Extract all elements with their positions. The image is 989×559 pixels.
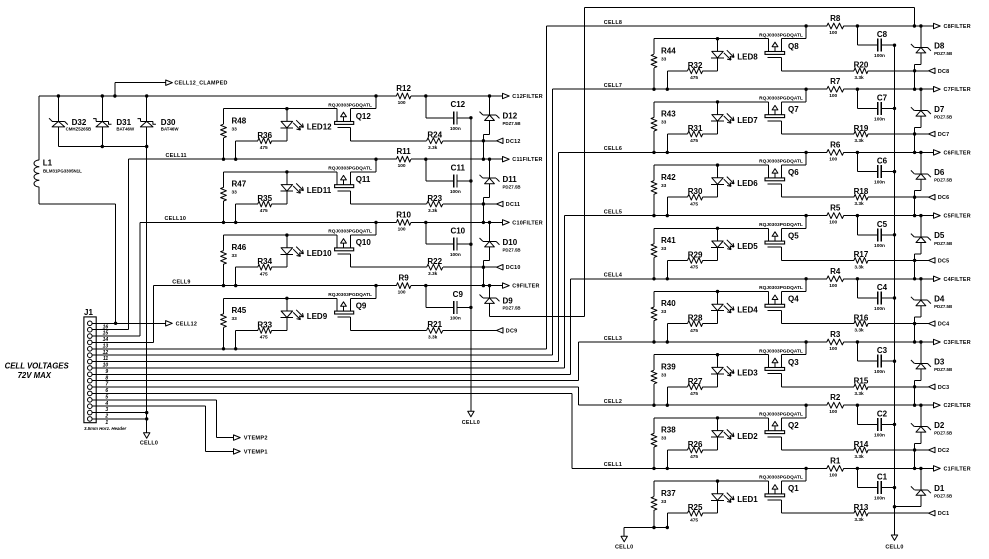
svg-text:100n: 100n [874, 116, 885, 122]
svg-text:D2: D2 [934, 421, 945, 430]
svg-text:PDZ7.5B: PDZ7.5B [503, 248, 521, 253]
svg-text:DC1: DC1 [938, 511, 950, 517]
svg-text:100: 100 [829, 283, 837, 289]
svg-text:DC10: DC10 [506, 265, 521, 271]
svg-text:33: 33 [232, 316, 238, 322]
svg-text:33: 33 [232, 190, 238, 196]
svg-text:LED1: LED1 [737, 495, 758, 504]
svg-text:CELL7: CELL7 [604, 83, 622, 89]
svg-text:R1: R1 [830, 456, 841, 465]
svg-text:100: 100 [829, 409, 837, 415]
svg-text:CELL0: CELL0 [885, 545, 903, 551]
svg-text:CELL0: CELL0 [140, 440, 158, 446]
svg-text:CELL0: CELL0 [615, 545, 633, 551]
svg-text:Q8: Q8 [788, 42, 799, 51]
svg-text:33: 33 [661, 309, 667, 315]
svg-text:R46: R46 [232, 243, 247, 252]
svg-text:6: 6 [105, 388, 108, 394]
svg-text:CELL10: CELL10 [165, 216, 187, 222]
svg-text:C10: C10 [450, 227, 465, 236]
svg-text:R18: R18 [854, 187, 869, 196]
svg-text:R17: R17 [854, 250, 869, 259]
svg-text:R42: R42 [661, 173, 676, 182]
svg-text:D10: D10 [503, 238, 518, 247]
svg-text:R12: R12 [396, 84, 411, 93]
svg-text:RQJ0303PGDQATL: RQJ0303PGDQATL [328, 229, 372, 235]
svg-text:4: 4 [104, 401, 108, 407]
svg-text:RQJ0303PGDQATL: RQJ0303PGDQATL [759, 285, 803, 291]
svg-text:C5FILTER: C5FILTER [944, 214, 971, 220]
svg-text:BAT46W: BAT46W [116, 127, 135, 132]
svg-text:R32: R32 [688, 61, 703, 70]
svg-text:RQJ0303PGDQATL: RQJ0303PGDQATL [759, 348, 803, 354]
svg-text:475: 475 [690, 391, 698, 397]
svg-text:R3: R3 [830, 330, 841, 339]
svg-text:C4: C4 [877, 283, 888, 292]
svg-text:RQJ0303PGDQATL: RQJ0303PGDQATL [759, 412, 803, 418]
svg-text:DC7: DC7 [938, 132, 950, 138]
svg-text:DC4: DC4 [938, 322, 950, 328]
svg-text:475: 475 [690, 75, 698, 81]
svg-text:DC2: DC2 [938, 448, 950, 454]
svg-text:Q2: Q2 [788, 421, 799, 430]
svg-text:3.3k: 3.3k [854, 264, 864, 270]
svg-text:PDZ7.5B: PDZ7.5B [934, 51, 952, 56]
svg-text:100: 100 [829, 156, 837, 162]
svg-text:7: 7 [105, 382, 108, 388]
svg-text:CELL12_CLAMPED: CELL12_CLAMPED [174, 81, 227, 87]
svg-text:VTEMP2: VTEMP2 [244, 436, 268, 442]
svg-text:PDZ7.5B: PDZ7.5B [503, 184, 521, 189]
svg-text:R43: R43 [661, 110, 676, 119]
svg-text:3.3k: 3.3k [854, 201, 864, 207]
svg-text:DC6: DC6 [938, 195, 950, 201]
svg-text:BAT46W: BAT46W [161, 127, 180, 132]
svg-text:C3: C3 [877, 346, 888, 355]
svg-text:475: 475 [690, 265, 698, 271]
svg-text:C12FILTER: C12FILTER [512, 94, 543, 100]
svg-text:Q3: Q3 [788, 358, 799, 367]
svg-text:100: 100 [829, 30, 837, 36]
svg-text:100n: 100n [450, 315, 461, 321]
svg-text:CELL4: CELL4 [604, 273, 622, 279]
svg-text:R41: R41 [661, 236, 676, 245]
svg-text:CELL11: CELL11 [166, 153, 187, 159]
svg-text:PDZ7.5B: PDZ7.5B [934, 241, 952, 246]
svg-text:3.3k: 3.3k [854, 75, 864, 81]
svg-text:R10: R10 [396, 210, 411, 219]
svg-text:PDZ7.5B: PDZ7.5B [934, 304, 952, 309]
svg-text:CELL1: CELL1 [604, 462, 622, 468]
svg-text:R20: R20 [854, 61, 869, 70]
svg-text:33: 33 [232, 253, 238, 259]
svg-text:475: 475 [690, 517, 698, 523]
svg-text:R35: R35 [257, 194, 272, 203]
svg-text:VTEMP1: VTEMP1 [244, 449, 268, 455]
svg-text:D5: D5 [934, 231, 945, 240]
svg-text:D8: D8 [934, 42, 945, 51]
svg-text:Q6: Q6 [788, 168, 799, 177]
svg-text:100: 100 [398, 163, 406, 169]
svg-text:9: 9 [105, 369, 108, 375]
svg-text:13: 13 [103, 343, 109, 349]
svg-text:3.3k: 3.3k [854, 391, 864, 397]
svg-text:LED12: LED12 [307, 123, 332, 132]
svg-text:100: 100 [829, 93, 837, 99]
svg-text:R4: R4 [830, 267, 841, 276]
svg-text:R16: R16 [854, 313, 869, 322]
svg-text:100: 100 [829, 346, 837, 352]
svg-text:CMHZ5265B: CMHZ5265B [66, 127, 92, 132]
svg-text:LED9: LED9 [307, 312, 328, 321]
svg-text:CELL9: CELL9 [172, 279, 190, 285]
svg-text:L1: L1 [43, 158, 53, 167]
svg-text:D11: D11 [503, 175, 518, 184]
svg-text:R26: R26 [688, 440, 703, 449]
svg-text:C8: C8 [877, 30, 888, 39]
svg-text:LED2: LED2 [737, 432, 758, 441]
svg-text:3.3k: 3.3k [428, 271, 438, 277]
svg-text:C8FILTER: C8FILTER [944, 24, 971, 30]
svg-text:C1: C1 [877, 473, 888, 482]
svg-text:CELL5: CELL5 [604, 209, 622, 215]
svg-text:Q9: Q9 [356, 301, 367, 310]
svg-text:C3FILTER: C3FILTER [944, 340, 971, 346]
svg-text:RQJ0303PGDQATL: RQJ0303PGDQATL [328, 102, 372, 108]
svg-text:100n: 100n [874, 180, 885, 186]
svg-text:CELL6: CELL6 [604, 146, 622, 152]
svg-text:3: 3 [105, 407, 108, 413]
svg-text:DC5: DC5 [938, 258, 950, 264]
svg-text:16: 16 [103, 324, 109, 330]
svg-text:C2: C2 [877, 409, 888, 418]
svg-text:CELL VOLTAGES: CELL VOLTAGES [5, 362, 70, 371]
svg-text:PDZ7.5B: PDZ7.5B [934, 178, 952, 183]
svg-text:R47: R47 [232, 180, 247, 189]
svg-text:RQJ0303PGDQATL: RQJ0303PGDQATL [759, 96, 803, 102]
svg-text:475: 475 [260, 208, 268, 214]
svg-text:475: 475 [690, 454, 698, 460]
svg-text:D9: D9 [503, 296, 514, 305]
svg-text:100: 100 [829, 472, 837, 478]
svg-text:R38: R38 [661, 426, 676, 435]
svg-text:10: 10 [103, 363, 109, 369]
svg-text:CELL3: CELL3 [604, 336, 622, 342]
svg-text:72V MAX: 72V MAX [18, 371, 52, 380]
svg-text:LED4: LED4 [737, 305, 758, 314]
svg-text:3.3k: 3.3k [854, 517, 864, 523]
svg-text:DC9: DC9 [506, 328, 518, 334]
svg-text:LED8: LED8 [737, 53, 758, 62]
svg-text:RQJ0303PGDQATL: RQJ0303PGDQATL [759, 475, 803, 481]
svg-text:R39: R39 [661, 362, 676, 371]
svg-text:LED3: LED3 [737, 369, 758, 378]
svg-text:100: 100 [398, 100, 406, 106]
svg-text:475: 475 [690, 138, 698, 144]
svg-text:33: 33 [661, 436, 667, 442]
svg-text:R22: R22 [427, 257, 442, 266]
svg-text:R45: R45 [232, 306, 247, 315]
svg-text:33: 33 [661, 120, 667, 126]
svg-text:C9FILTER: C9FILTER [512, 284, 539, 290]
svg-text:100n: 100n [874, 306, 885, 312]
svg-text:100n: 100n [874, 496, 885, 502]
svg-text:R13: R13 [854, 503, 869, 512]
svg-text:R11: R11 [396, 147, 411, 156]
svg-text:100n: 100n [874, 369, 885, 375]
svg-text:RQJ0303PGDQATL: RQJ0303PGDQATL [328, 166, 372, 172]
svg-text:R36: R36 [257, 131, 272, 140]
svg-text:C2FILTER: C2FILTER [944, 403, 971, 409]
svg-text:475: 475 [260, 335, 268, 341]
svg-text:C6: C6 [877, 157, 888, 166]
svg-text:475: 475 [260, 271, 268, 277]
svg-text:CELL12: CELL12 [176, 321, 198, 327]
svg-text:R48: R48 [232, 116, 247, 125]
svg-text:R30: R30 [688, 187, 703, 196]
svg-text:DC12: DC12 [506, 139, 521, 145]
svg-text:PDZ7.5B: PDZ7.5B [934, 430, 952, 435]
svg-text:DC11: DC11 [506, 202, 520, 208]
svg-text:R6: R6 [830, 140, 841, 149]
svg-text:CELL8: CELL8 [604, 20, 622, 26]
svg-text:3.3k: 3.3k [854, 328, 864, 334]
svg-text:LED10: LED10 [307, 249, 332, 258]
svg-text:DC3: DC3 [938, 385, 950, 391]
svg-text:100n: 100n [874, 243, 885, 249]
svg-text:100n: 100n [450, 189, 461, 195]
svg-text:3.3k: 3.3k [854, 138, 864, 144]
svg-text:C12: C12 [450, 100, 465, 109]
svg-text:PDZ7.5B: PDZ7.5B [934, 114, 952, 119]
svg-text:LED7: LED7 [737, 116, 758, 125]
svg-text:33: 33 [232, 126, 238, 132]
svg-text:R31: R31 [688, 124, 703, 133]
svg-text:R15: R15 [854, 377, 869, 386]
svg-text:R25: R25 [688, 503, 703, 512]
svg-text:R27: R27 [688, 377, 703, 386]
svg-text:Q5: Q5 [788, 231, 799, 240]
svg-text:15: 15 [103, 331, 109, 337]
svg-text:PDZ7.5B: PDZ7.5B [934, 494, 952, 499]
svg-text:RQJ0303PGDQATL: RQJ0303PGDQATL [759, 32, 803, 38]
svg-text:R9: R9 [398, 274, 409, 283]
svg-text:3.3k: 3.3k [854, 454, 864, 460]
svg-text:D3: D3 [934, 358, 945, 367]
svg-text:C11: C11 [451, 163, 466, 172]
svg-text:C11FILTER: C11FILTER [512, 157, 542, 163]
svg-text:Q11: Q11 [356, 175, 371, 184]
svg-text:Q12: Q12 [356, 112, 372, 121]
svg-text:PDZ7.5B: PDZ7.5B [503, 121, 521, 126]
svg-text:R23: R23 [427, 194, 442, 203]
svg-text:R24: R24 [427, 131, 442, 140]
svg-text:C10FILTER: C10FILTER [512, 220, 543, 226]
svg-text:C7FILTER: C7FILTER [944, 87, 971, 93]
svg-text:C6FILTER: C6FILTER [944, 150, 971, 156]
svg-text:Q7: Q7 [788, 105, 799, 114]
svg-text:100: 100 [398, 226, 406, 232]
svg-text:R5: R5 [830, 204, 841, 213]
svg-text:R33: R33 [257, 320, 272, 329]
svg-text:2: 2 [104, 414, 108, 420]
svg-text:D12: D12 [503, 112, 518, 121]
svg-text:C9: C9 [453, 290, 464, 299]
svg-text:D6: D6 [934, 168, 945, 177]
svg-text:R19: R19 [854, 124, 869, 133]
svg-text:33: 33 [661, 246, 667, 252]
svg-text:8: 8 [105, 375, 108, 381]
svg-text:C1FILTER: C1FILTER [944, 466, 971, 472]
svg-text:5: 5 [105, 394, 108, 400]
svg-text:100n: 100n [874, 53, 885, 59]
svg-text:100: 100 [398, 290, 406, 296]
svg-text:J1: J1 [84, 308, 93, 317]
svg-text:CELL2: CELL2 [604, 399, 622, 405]
svg-text:33: 33 [661, 499, 667, 505]
svg-text:D4: D4 [934, 294, 945, 303]
svg-text:3.5mm Horz. Header: 3.5mm Horz. Header [84, 426, 127, 431]
svg-text:LED6: LED6 [737, 179, 758, 188]
svg-text:R7: R7 [830, 77, 841, 86]
svg-text:R2: R2 [830, 393, 841, 402]
svg-text:Q4: Q4 [788, 295, 799, 304]
svg-text:D1: D1 [934, 484, 945, 493]
svg-text:R37: R37 [661, 489, 676, 498]
svg-text:100n: 100n [450, 252, 461, 258]
svg-text:14: 14 [103, 337, 109, 343]
svg-text:PDZ7.5B: PDZ7.5B [934, 367, 952, 372]
svg-text:R29: R29 [688, 250, 703, 259]
svg-text:R34: R34 [257, 257, 272, 266]
svg-text:11: 11 [103, 356, 108, 362]
svg-text:475: 475 [690, 328, 698, 334]
svg-text:100n: 100n [874, 432, 885, 438]
svg-text:3.3k: 3.3k [428, 334, 438, 340]
svg-text:LED5: LED5 [737, 242, 758, 251]
svg-text:LED11: LED11 [307, 186, 332, 195]
svg-text:R8: R8 [830, 14, 841, 23]
svg-text:R21: R21 [427, 320, 442, 329]
svg-text:Q1: Q1 [788, 484, 799, 493]
svg-text:R14: R14 [854, 440, 869, 449]
svg-text:R28: R28 [688, 314, 703, 323]
svg-text:D7: D7 [934, 105, 945, 114]
svg-text:100n: 100n [450, 126, 461, 132]
svg-text:Q10: Q10 [356, 238, 372, 247]
svg-text:PDZ7.5B: PDZ7.5B [503, 305, 521, 310]
svg-text:475: 475 [260, 145, 268, 151]
svg-text:R44: R44 [661, 46, 676, 55]
svg-text:DC8: DC8 [938, 69, 950, 75]
svg-text:BLM31PG3305N1L: BLM31PG3305N1L [43, 168, 82, 173]
svg-text:RQJ0303PGDQATL: RQJ0303PGDQATL [759, 159, 803, 165]
svg-text:475: 475 [690, 201, 698, 207]
svg-text:33: 33 [661, 56, 667, 62]
svg-text:C5: C5 [877, 220, 888, 229]
svg-text:RQJ0303PGDQATL: RQJ0303PGDQATL [328, 292, 372, 298]
svg-text:R40: R40 [661, 299, 676, 308]
svg-text:33: 33 [661, 372, 667, 378]
svg-text:CELL0: CELL0 [462, 420, 480, 426]
svg-text:RQJ0303PGDQATL: RQJ0303PGDQATL [759, 222, 803, 228]
svg-text:3.3k: 3.3k [428, 145, 438, 151]
svg-text:3.3k: 3.3k [428, 208, 438, 214]
svg-text:100: 100 [829, 220, 837, 226]
svg-text:C7: C7 [877, 93, 888, 102]
svg-text:C4FILTER: C4FILTER [944, 277, 971, 283]
svg-text:33: 33 [661, 183, 667, 189]
svg-text:12: 12 [103, 350, 109, 356]
